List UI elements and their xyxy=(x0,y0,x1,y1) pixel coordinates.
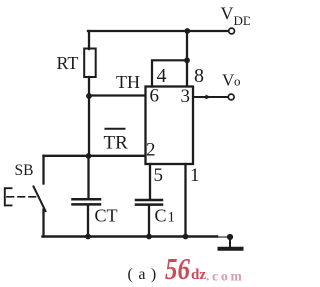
svg-text:SB: SB xyxy=(15,162,34,179)
ground bar xyxy=(220,247,242,251)
wire VDD drop to pin 8 xyxy=(186,31,188,86)
wire pin 5 to C1 xyxy=(149,164,151,200)
svg-text:(a): (a) xyxy=(128,266,162,283)
svg-text:4: 4 xyxy=(157,65,167,87)
wire VDD drop to RT xyxy=(88,31,90,49)
op-amp U1 555 body xyxy=(146,87,194,165)
terminal VDD circle xyxy=(229,28,235,34)
svg-text:56: 56 xyxy=(165,251,190,286)
wire TR node to CT xyxy=(87,156,89,199)
node C1 ground junction dot xyxy=(146,234,152,240)
wire pin 1 to ground rail xyxy=(184,164,186,237)
wire switch top lead xyxy=(42,156,44,184)
svg-text:2: 2 xyxy=(146,140,156,161)
wire hat pins 4-8 to VDD xyxy=(152,60,187,86)
ground stub xyxy=(229,237,231,247)
svg-text:o: o xyxy=(234,74,241,89)
capacitor CT top plate xyxy=(73,198,101,201)
wire RT bottom to TH node xyxy=(88,77,90,96)
svg-text:dz: dz xyxy=(191,267,206,283)
capacitor CT bottom plate xyxy=(73,203,101,206)
wire VDD top rail xyxy=(88,30,229,32)
wire TH node to TR node xyxy=(88,96,90,156)
node ground junction dot xyxy=(227,234,233,240)
svg-text:.com: .com xyxy=(206,269,245,284)
node CT ground junction dot xyxy=(85,234,91,240)
capacitor C1 top plate xyxy=(136,199,162,202)
node TR junction dot xyxy=(86,153,92,159)
node TH junction dot xyxy=(86,93,92,99)
wire switch bottom lead xyxy=(42,210,44,237)
pushbutton actuator bracket xyxy=(5,188,12,205)
svg-text:DD: DD xyxy=(234,13,251,28)
svg-text:5: 5 xyxy=(154,165,164,186)
svg-text:6: 6 xyxy=(150,86,160,107)
wire TR line (switch to pin 2) xyxy=(44,155,146,157)
svg-text:1: 1 xyxy=(190,165,200,186)
node hat corner junction dot xyxy=(184,57,190,63)
svg-text:RT: RT xyxy=(57,53,79,73)
label TR overline xyxy=(105,128,126,130)
switch SB blade xyxy=(34,187,46,212)
capacitor C1 bottom plate xyxy=(136,203,162,206)
svg-text:3: 3 xyxy=(181,86,191,107)
node VDD junction dot xyxy=(184,28,190,34)
wire pin 3 output xyxy=(193,96,229,98)
wire ground rail xyxy=(43,235,218,237)
wire TH node to pin 6 xyxy=(89,94,145,96)
wire thin rail segment to ground xyxy=(217,236,229,238)
resistor RT xyxy=(84,49,96,78)
wire C1 to ground rail xyxy=(148,205,150,237)
pushbutton dashed link xyxy=(7,196,36,198)
output arrow marker xyxy=(206,95,212,100)
svg-text:V: V xyxy=(221,4,234,24)
wire CT to ground rail xyxy=(87,205,89,237)
svg-text:CT: CT xyxy=(95,206,118,226)
svg-text:C1: C1 xyxy=(155,206,176,226)
terminal Vo circle xyxy=(228,94,234,100)
svg-text:TR: TR xyxy=(104,133,129,154)
svg-text:8: 8 xyxy=(194,65,204,87)
node pin1 ground junction dot xyxy=(183,234,189,240)
svg-text:TH: TH xyxy=(116,72,140,92)
